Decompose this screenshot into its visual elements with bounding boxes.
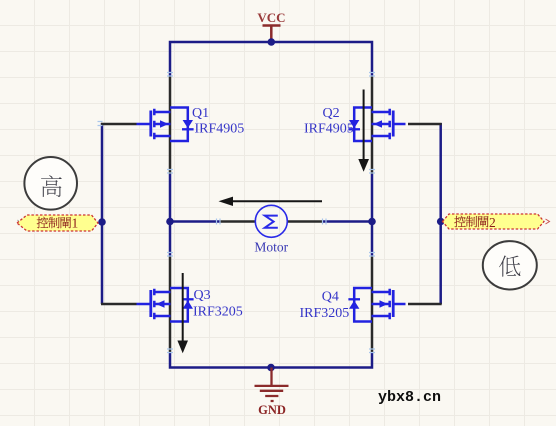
svg-text:IRF4905: IRF4905 bbox=[195, 122, 245, 137]
wire VCC top rail with vertical drops to Q1/Q2 bbox=[170, 42, 372, 76]
motor pin left bbox=[220, 220, 256, 223]
ground symbol GND bbox=[255, 368, 289, 402]
annotation arrow current (motor, pointing left) bbox=[233, 200, 322, 202]
svg-text:Q2: Q2 bbox=[323, 106, 340, 121]
port 控制閘1 flag bbox=[17, 215, 98, 231]
wire Q4 gate black segment bbox=[408, 303, 442, 306]
transistor Q4 pins bbox=[371, 256, 374, 353]
svg-text:IRF3205: IRF3205 bbox=[300, 306, 350, 321]
transistor Q2 symbol (P-MOSFET, gate right, mirrored) bbox=[348, 108, 405, 142]
transistor Q1 symbol (P-MOSFET, gate left) bbox=[137, 108, 194, 142]
selection mark at port2 right tip bbox=[546, 219, 550, 224]
svg-text:VCC: VCC bbox=[257, 10, 285, 25]
node junction motor-right bbox=[368, 218, 376, 226]
node junction GND-rail bbox=[267, 364, 275, 372]
svg-text:IRF3205: IRF3205 bbox=[193, 305, 243, 320]
wire Q3 gate black segment bbox=[101, 303, 137, 306]
wire left mid segment (Q1 source to motor node, down to Q3 drain) bbox=[169, 174, 172, 256]
motor pin right bbox=[287, 220, 323, 223]
annotation arrow current (Q3, pointing down) bbox=[182, 273, 184, 341]
hanzi 低 bbox=[499, 255, 520, 276]
wire motor left branch bbox=[170, 220, 220, 223]
pin-end markers (light blue ticks) bbox=[98, 73, 376, 353]
annotation circle 高 (high) bbox=[24, 157, 77, 210]
node junction VCC-rail bbox=[268, 38, 276, 46]
node junction motor-left bbox=[166, 218, 174, 226]
transistor Q3 symbol (N-MOSFET, gate left) bbox=[137, 288, 194, 322]
power symbol VCC bbox=[263, 26, 281, 43]
annotation circle 低 (low) bbox=[483, 241, 537, 289]
wire Q2 gate black segment bbox=[408, 123, 442, 126]
wire right gate rail (port2 to Q2/Q4 gates) bbox=[439, 123, 442, 304]
svg-text:1: 1 bbox=[72, 216, 79, 231]
transistor Q4 symbol (N-MOSFET, gate right, mirrored) bbox=[348, 288, 405, 322]
hanzi 高 bbox=[41, 175, 62, 197]
motor sigma glyph bbox=[265, 216, 278, 228]
port 控制閘2 flag bbox=[443, 214, 545, 229]
wire Q1 gate black segment bbox=[101, 123, 137, 126]
motor M1 circle bbox=[255, 205, 287, 237]
svg-text:Q1: Q1 bbox=[192, 106, 209, 121]
selection mark at port1 left tip bbox=[18, 220, 24, 226]
transistor Q3 pins bbox=[169, 256, 172, 353]
svg-text:Motor: Motor bbox=[254, 240, 288, 255]
svg-text:2: 2 bbox=[489, 215, 496, 230]
svg-text:Q4: Q4 bbox=[322, 290, 339, 305]
svg-text:IRF4905: IRF4905 bbox=[304, 122, 354, 137]
svg-text:ybx8.cn: ybx8.cn bbox=[378, 389, 441, 406]
wire right mid segment (Q2 to motor node to Q4) bbox=[371, 174, 374, 256]
wire bottom GND rail bbox=[170, 352, 372, 368]
port 控制閘1 text (hanzi) bbox=[37, 217, 48, 228]
svg-text:GND: GND bbox=[258, 403, 286, 417]
wire motor right branch bbox=[323, 220, 373, 223]
node junction port2 bbox=[437, 218, 445, 226]
svg-text:Q3: Q3 bbox=[194, 288, 211, 303]
node junction port1 bbox=[98, 218, 106, 226]
transistor Q1 pins (drain/source vertical black) bbox=[169, 76, 172, 175]
transistor Q2 pins bbox=[371, 76, 374, 175]
annotation arrow current (Q2, pointing down) bbox=[363, 90, 365, 160]
wire left gate rail (port1 to Q1/Q3 gates) bbox=[101, 123, 104, 304]
port 控制閘2 text (hanzi) bbox=[454, 216, 465, 227]
